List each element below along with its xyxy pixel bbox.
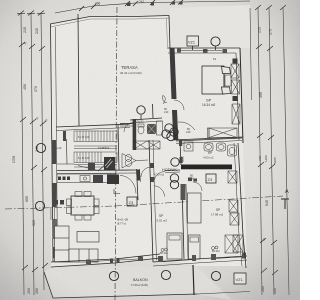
balcony	[44, 272, 197, 298]
door arc SP17.98	[193, 182, 202, 191]
top right extension line	[250, 8, 252, 100]
bottom wardrobe hatch	[207, 128, 237, 138]
dining table	[71, 196, 94, 215]
coffee table	[77, 232, 99, 243]
left inner wall dark segment	[63, 131, 66, 141]
wall living/hodnik	[137, 169, 139, 200]
kitchen counter return	[114, 189, 120, 194]
WC block	[120, 106, 163, 150]
top dimension line	[55, 1, 250, 13]
Z3 box 2	[206, 174, 216, 183]
axis circles cluster near hodnik top	[165, 124, 173, 132]
stove dark	[107, 175, 119, 185]
wall under stairs / above kitchen	[57, 169, 137, 172]
east wall lower	[238, 143, 243, 235]
bedroom SP 16.34 walls	[168, 47, 240, 49]
stairs right wall	[118, 125, 119, 170]
right dim lines	[258, 7, 289, 295]
kitchen corner shaft	[66, 139, 69, 164]
lighter drawing interior	[50, 16, 247, 268]
kitchen counter band	[57, 174, 116, 183]
KP room	[176, 138, 242, 141]
terasa top edge	[50, 16, 169, 25]
left outer wall	[51, 24, 54, 262]
axis circle left wall	[35, 201, 44, 210]
SP 5.32 room	[149, 140, 153, 262]
elevator dark box	[104, 157, 115, 170]
terasa NE corner wall down to bedroom	[169, 16, 170, 50]
left wall dark fill	[52, 140, 57, 164]
partition between SP rooms	[182, 184, 184, 259]
window in left wall	[50, 207, 52, 220]
east wardrobe hatch strip	[231, 64, 240, 124]
dashed section line vertical	[115, 7, 117, 300]
VZ1 box bottom	[234, 273, 246, 284]
Z3 box living	[127, 197, 137, 206]
door arc hodnik-living	[141, 167, 151, 177]
thick dark wall hodnik	[181, 165, 232, 170]
VZ1 box top	[187, 36, 199, 46]
axis circle top	[211, 37, 220, 46]
stairs flights	[74, 131, 117, 167]
terasa inner line	[78, 14, 79, 126]
door arc SP5.32	[154, 172, 165, 183]
left dim lines	[21, 13, 44, 295]
door arc hodnik-living	[120, 176, 136, 194]
window marks on bedroom top wall	[177, 49, 181, 53]
door arc bedroom	[174, 100, 184, 110]
bed	[202, 66, 224, 94]
dash-dot horizontal section line	[5, 206, 115, 209]
living bottom wall	[51, 254, 160, 262]
door arc KP	[178, 122, 195, 130]
sofa L-shape	[55, 226, 99, 262]
shower screen line WC	[152, 104, 155, 118]
east outer wall bottom part	[243, 235, 246, 268]
stairs block top wall	[56, 124, 130, 127]
bedroom left wall dark bar with door gap	[170, 48, 177, 99]
door flag 84 with circles	[122, 154, 136, 169]
bedrooms bottom wall	[153, 256, 247, 262]
